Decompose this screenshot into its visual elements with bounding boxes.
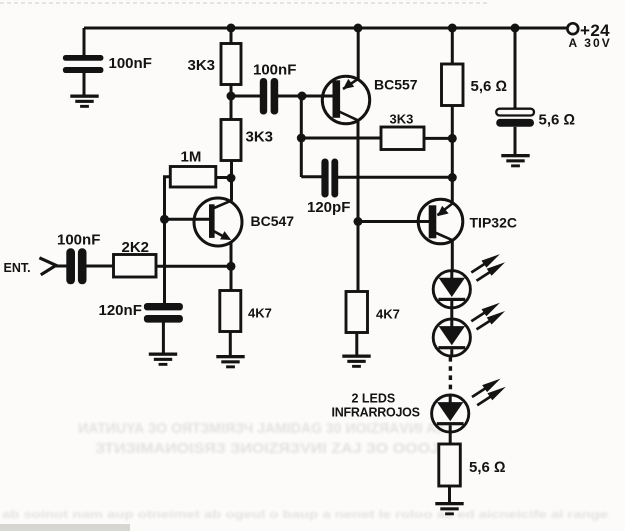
wire C1 to ground xyxy=(83,73,86,95)
svg-text:2 LEDS: 2 LEDS xyxy=(352,392,396,406)
node dot R1/R2/C2 xyxy=(227,92,236,101)
node dot R4 join xyxy=(448,134,457,143)
transistor Q1 BC557 xyxy=(322,76,369,123)
wire 1M left down to 120nF xyxy=(165,177,171,304)
ground under R9 xyxy=(435,502,463,515)
wire rail to R1 xyxy=(230,28,233,44)
LED D1 xyxy=(433,271,470,308)
wire R2 to BC547 collector xyxy=(230,161,233,201)
svg-text:ЗТИЗІМАИОІЅЯЗ ЗИОIZЯЗVИI ZAJ З: ЗТИЗІМАИОІЅЯЗ ЗИОIZЯЗVИI ZAJ ЗО ОООJ xyxy=(95,440,439,457)
svg-text:BC557: BC557 xyxy=(374,77,418,93)
wire R8 to ground xyxy=(229,332,232,356)
wire node to C2 xyxy=(231,95,261,98)
capacitor C4 120pF plates xyxy=(321,159,338,198)
capacitor C2 100nF plates xyxy=(260,78,278,115)
ground under C6 xyxy=(149,353,177,366)
wire 1M right to collector node xyxy=(216,176,231,179)
LED D3 xyxy=(432,395,469,432)
capacitor C6 120nF plates xyxy=(144,303,183,323)
node dot rail x=452 xyxy=(448,24,457,33)
faint top rule xyxy=(0,2,488,4)
svg-text:TIP32C: TIP32C xyxy=(470,215,517,231)
svg-text:4K7: 4K7 xyxy=(376,307,400,322)
wire R4 to right column xyxy=(424,137,452,140)
resistor R1 3K3 xyxy=(221,44,241,85)
wire C6 to ground xyxy=(162,323,165,354)
node dot C4 join xyxy=(448,173,457,182)
wire rail to R3 xyxy=(451,28,454,65)
capacitor C1 100nF plates xyxy=(63,55,104,73)
svg-text:3K3: 3K3 xyxy=(390,112,414,127)
wire chevron to C3 xyxy=(55,265,67,268)
light arrows D1 xyxy=(471,254,500,272)
LED D2 xyxy=(433,319,470,356)
wire R9 to ground xyxy=(448,486,451,503)
svg-text:ab soinot nam aup otneimet ab: ab soinot nam aup otneimet ab ogeul o ba… xyxy=(2,509,608,521)
input arrow chevron xyxy=(39,258,56,275)
wire D1 to D2 xyxy=(450,308,453,319)
light arrows D2 xyxy=(471,303,500,321)
svg-text:1M: 1M xyxy=(181,149,202,166)
node dot rail x=231 xyxy=(227,24,236,33)
svg-text:4K7: 4K7 xyxy=(248,306,272,321)
resistor R9 5,6 ohm xyxy=(439,444,461,486)
wire D3 to R9 xyxy=(449,432,452,445)
wire C4 to right column xyxy=(338,176,452,179)
ground under C1 xyxy=(70,95,98,108)
svg-text:A 30V: A 30V xyxy=(569,36,612,50)
wire C3 to R5 xyxy=(87,265,115,268)
resistor R7 1M xyxy=(170,167,216,188)
wire rail to C1 xyxy=(83,28,86,56)
svg-text:5,6 Ω: 5,6 Ω xyxy=(471,78,508,95)
ground under R8 xyxy=(216,355,244,368)
svg-text:ИATИUYA ЗО ОЯТЗМIЯЗЧ JAMIDAG 3: ИATИUYA ЗО ОЯТЗМIЯЗЧ JAMIDAG 30 ИOIZЯАVИ… xyxy=(78,420,444,437)
svg-text:3K3: 3K3 xyxy=(246,129,274,146)
resistor R5 2K2 xyxy=(114,255,157,278)
wire R3 down to TIP32 emitter xyxy=(451,106,454,204)
resistor R2 3K3 xyxy=(221,120,241,161)
wire node to R4 xyxy=(301,137,381,140)
svg-text:100nF: 100nF xyxy=(253,62,296,79)
wire R6 to ground xyxy=(355,333,358,356)
terminal +24 xyxy=(567,23,578,34)
wire top rail xyxy=(84,27,568,30)
resistor R8 4K7 xyxy=(220,291,241,332)
svg-text:5,6 Ω: 5,6 Ω xyxy=(469,459,506,476)
resistor R3 5,6 ohm xyxy=(442,64,464,106)
wire R1 to R2 xyxy=(230,85,233,120)
light arrows D3 xyxy=(472,379,501,397)
wire BC547 emitter down xyxy=(230,241,233,291)
svg-text:INFRARROJOS: INFRARROJOS xyxy=(332,406,420,420)
capacitor C5 plates xyxy=(496,109,534,116)
capacitor C3 100nF plates xyxy=(66,248,86,284)
node dot rail x=358 xyxy=(354,24,363,33)
svg-text:120nF: 120nF xyxy=(99,302,142,319)
wire C5 to ground xyxy=(514,127,517,155)
svg-text:BC547: BC547 xyxy=(251,213,295,229)
node dot emitter / 2K2 xyxy=(227,262,236,271)
wire to TIP32C base xyxy=(358,220,430,223)
node dot BC557 base net xyxy=(298,92,307,101)
svg-text:5,6 Ω: 5,6 Ω xyxy=(539,112,576,129)
ground under R6 xyxy=(342,355,370,368)
svg-text:100nF: 100nF xyxy=(109,55,152,72)
wire R5 to BC547 emitter node xyxy=(156,265,231,268)
wire BC557 collector down to R6 xyxy=(357,120,360,292)
wire dashed D2 to D3 xyxy=(449,357,452,395)
transistor Q3 TIP32C xyxy=(418,199,463,244)
resistor R4 3K3 xyxy=(381,127,424,150)
wire C2 to BC557 base xyxy=(278,95,333,98)
wire TIP collector to LED1 xyxy=(451,240,454,271)
svg-text:2K2: 2K2 xyxy=(122,239,150,256)
faint page artifacts (bleed-through) xyxy=(2,420,608,521)
wire base node to BC547 xyxy=(165,218,210,221)
node dot 1M tap xyxy=(227,174,236,183)
ground under C5 xyxy=(501,154,529,167)
node dot BC547 base xyxy=(160,215,169,224)
transistor Q2 BC547 xyxy=(194,198,242,246)
resistor R6 4K7 xyxy=(346,292,368,333)
wire base net down xyxy=(300,96,303,177)
node dot BC557 collector / TIP base xyxy=(354,217,363,226)
svg-text:ENT.: ENT. xyxy=(4,261,31,275)
wire BC557 emitter to rail xyxy=(357,28,360,80)
node dot left of R4 xyxy=(297,134,306,143)
node dot rail x=515 xyxy=(511,24,520,33)
svg-text:3K3: 3K3 xyxy=(188,57,216,74)
faint bottom-left smudge xyxy=(0,524,130,531)
svg-text:120pF: 120pF xyxy=(307,199,350,216)
wire to C4 xyxy=(301,175,322,178)
wire rail to C5 xyxy=(514,28,517,109)
svg-text:100nF: 100nF xyxy=(57,232,100,249)
